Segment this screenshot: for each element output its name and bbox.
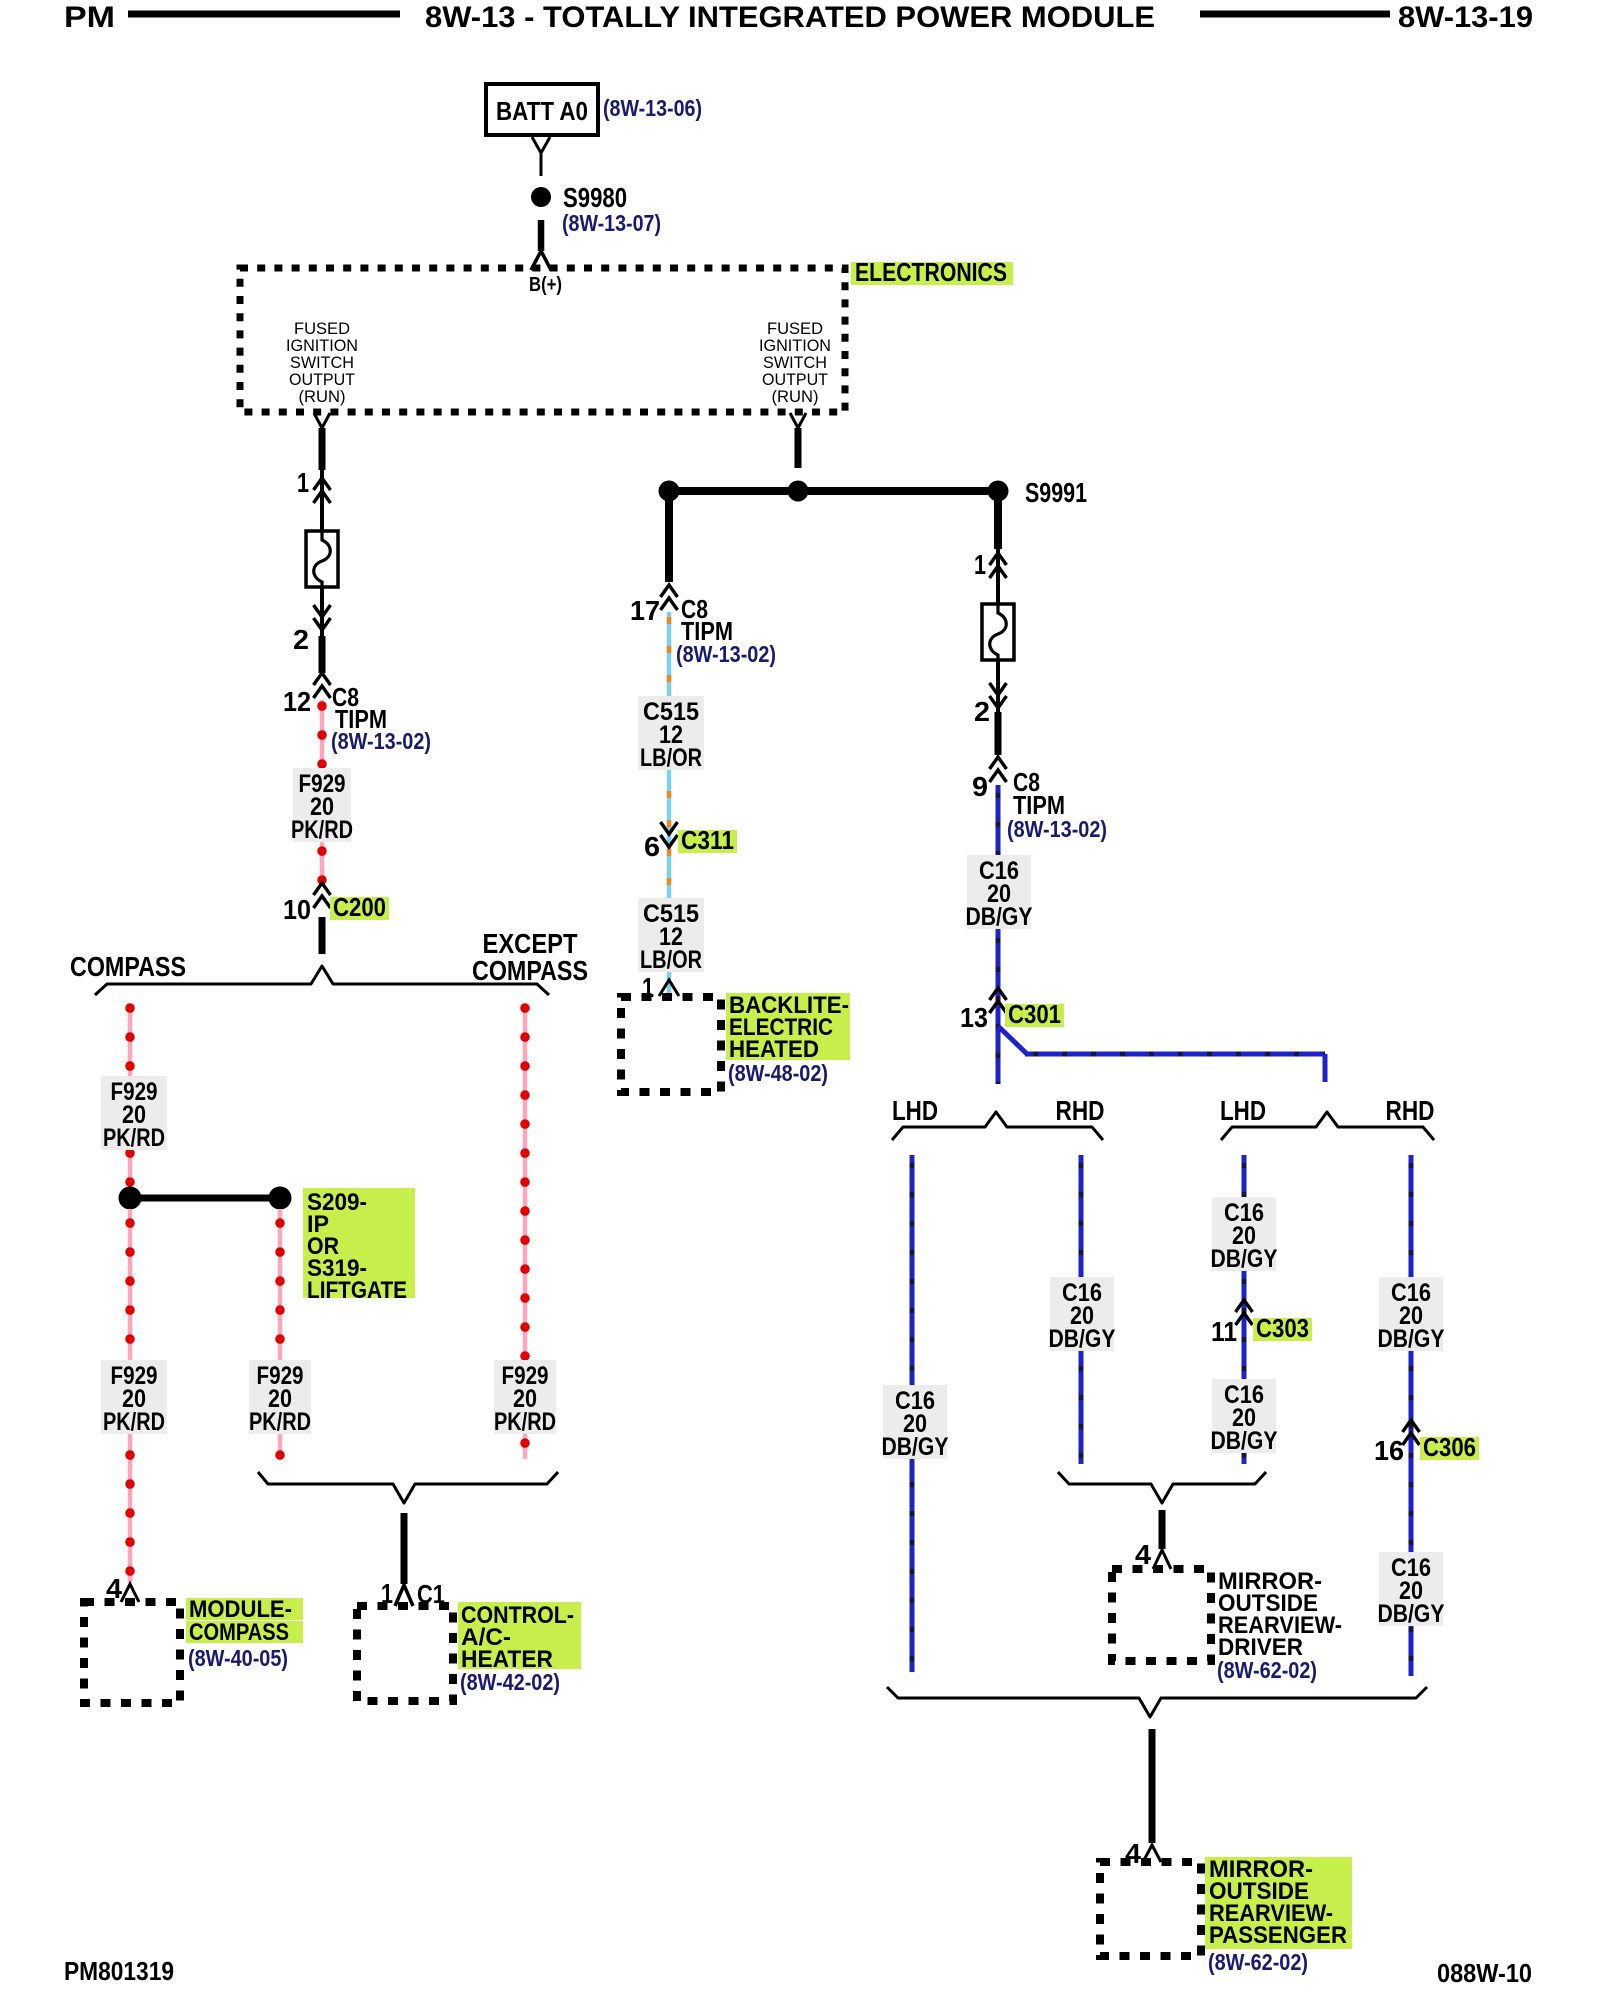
svg-text:8W-13 - TOTALLY INTEGRATED POW: 8W-13 - TOTALLY INTEGRATED POWER MODULE bbox=[425, 1, 1155, 34]
svg-text:S9991: S9991 bbox=[1025, 477, 1087, 508]
svg-text:HEATED: HEATED bbox=[729, 1036, 819, 1063]
svg-text:10: 10 bbox=[283, 894, 311, 925]
svg-text:9: 9 bbox=[972, 771, 988, 802]
svg-text:C303: C303 bbox=[1256, 1313, 1309, 1343]
svg-text:RHD: RHD bbox=[1386, 1095, 1435, 1126]
svg-text:C200: C200 bbox=[333, 892, 386, 922]
svg-text:(8W-13-02): (8W-13-02) bbox=[331, 728, 431, 754]
svg-text:(8W-48-02): (8W-48-02) bbox=[728, 1060, 828, 1086]
svg-text:(8W-13-02): (8W-13-02) bbox=[1007, 816, 1107, 842]
svg-text:6: 6 bbox=[644, 831, 660, 862]
svg-text:S9980: S9980 bbox=[563, 182, 627, 213]
svg-text:(8W-13-06): (8W-13-06) bbox=[603, 95, 702, 121]
svg-text:13: 13 bbox=[960, 1002, 988, 1033]
svg-text:OUTPUT: OUTPUT bbox=[289, 371, 355, 389]
svg-text:SWITCH: SWITCH bbox=[763, 354, 827, 372]
svg-text:16: 16 bbox=[1374, 1435, 1404, 1466]
svg-text:COMPASS: COMPASS bbox=[70, 951, 186, 982]
svg-text:COMPASS: COMPASS bbox=[189, 1619, 289, 1646]
svg-text:LHD: LHD bbox=[892, 1095, 938, 1126]
svg-text:12: 12 bbox=[283, 686, 311, 717]
svg-text:DB/GY: DB/GY bbox=[966, 903, 1033, 931]
svg-text:LB/OR: LB/OR bbox=[640, 744, 702, 772]
svg-text:OUTPUT: OUTPUT bbox=[762, 371, 828, 389]
svg-text:B(+): B(+) bbox=[529, 274, 562, 296]
svg-text:8W-13-19: 8W-13-19 bbox=[1398, 1, 1533, 34]
svg-text:COMPASS: COMPASS bbox=[472, 955, 588, 986]
svg-text:DB/GY: DB/GY bbox=[1211, 1427, 1278, 1455]
svg-text:IGNITION: IGNITION bbox=[286, 337, 358, 355]
svg-text:088W-10: 088W-10 bbox=[1437, 1958, 1532, 1988]
svg-text:FUSED: FUSED bbox=[767, 320, 823, 338]
svg-text:(RUN): (RUN) bbox=[772, 388, 819, 406]
svg-text:(8W-13-02): (8W-13-02) bbox=[676, 641, 776, 667]
svg-text:(8W-62-02): (8W-62-02) bbox=[1217, 1657, 1317, 1683]
svg-text:ELECTRONICS: ELECTRONICS bbox=[855, 257, 1007, 287]
svg-text:DB/GY: DB/GY bbox=[1049, 1325, 1116, 1353]
svg-text:PK/RD: PK/RD bbox=[291, 816, 353, 844]
svg-text:DB/GY: DB/GY bbox=[1211, 1245, 1278, 1273]
svg-text:LB/OR: LB/OR bbox=[640, 946, 702, 974]
svg-text:2: 2 bbox=[293, 624, 309, 655]
svg-text:PM801319: PM801319 bbox=[64, 1956, 174, 1986]
svg-text:C311: C311 bbox=[681, 825, 734, 855]
svg-text:SWITCH: SWITCH bbox=[290, 354, 354, 372]
svg-text:PK/RD: PK/RD bbox=[494, 1408, 556, 1436]
svg-text:11: 11 bbox=[1211, 1316, 1237, 1347]
svg-text:(8W-42-02): (8W-42-02) bbox=[460, 1669, 560, 1695]
svg-text:DB/GY: DB/GY bbox=[1378, 1325, 1445, 1353]
svg-text:(8W-40-05): (8W-40-05) bbox=[188, 1645, 288, 1671]
svg-text:DB/GY: DB/GY bbox=[882, 1433, 949, 1461]
svg-text:RHD: RHD bbox=[1056, 1095, 1105, 1126]
svg-text:1: 1 bbox=[974, 549, 986, 580]
svg-text:(RUN): (RUN) bbox=[299, 388, 346, 406]
svg-text:C301: C301 bbox=[1008, 999, 1061, 1029]
svg-text:PM: PM bbox=[64, 1, 115, 34]
svg-text:C306: C306 bbox=[1423, 1432, 1476, 1462]
svg-text:LHD: LHD bbox=[1220, 1095, 1266, 1126]
svg-text:DB/GY: DB/GY bbox=[1378, 1600, 1445, 1628]
svg-text:(8W-62-02): (8W-62-02) bbox=[1208, 1949, 1308, 1975]
svg-text:PASSENGER: PASSENGER bbox=[1209, 1922, 1347, 1949]
svg-text:FUSED: FUSED bbox=[294, 320, 350, 338]
svg-text:PK/RD: PK/RD bbox=[103, 1408, 165, 1436]
svg-text:PK/RD: PK/RD bbox=[249, 1408, 311, 1436]
svg-text:(8W-13-07): (8W-13-07) bbox=[562, 210, 661, 236]
svg-text:1: 1 bbox=[297, 467, 309, 498]
svg-text:LIFTGATE: LIFTGATE bbox=[307, 1277, 407, 1304]
svg-text:2: 2 bbox=[974, 696, 990, 727]
svg-text:BATT A0: BATT A0 bbox=[496, 96, 588, 126]
svg-text:17: 17 bbox=[630, 595, 660, 626]
svg-text:IGNITION: IGNITION bbox=[759, 337, 831, 355]
svg-text:PK/RD: PK/RD bbox=[103, 1124, 165, 1152]
